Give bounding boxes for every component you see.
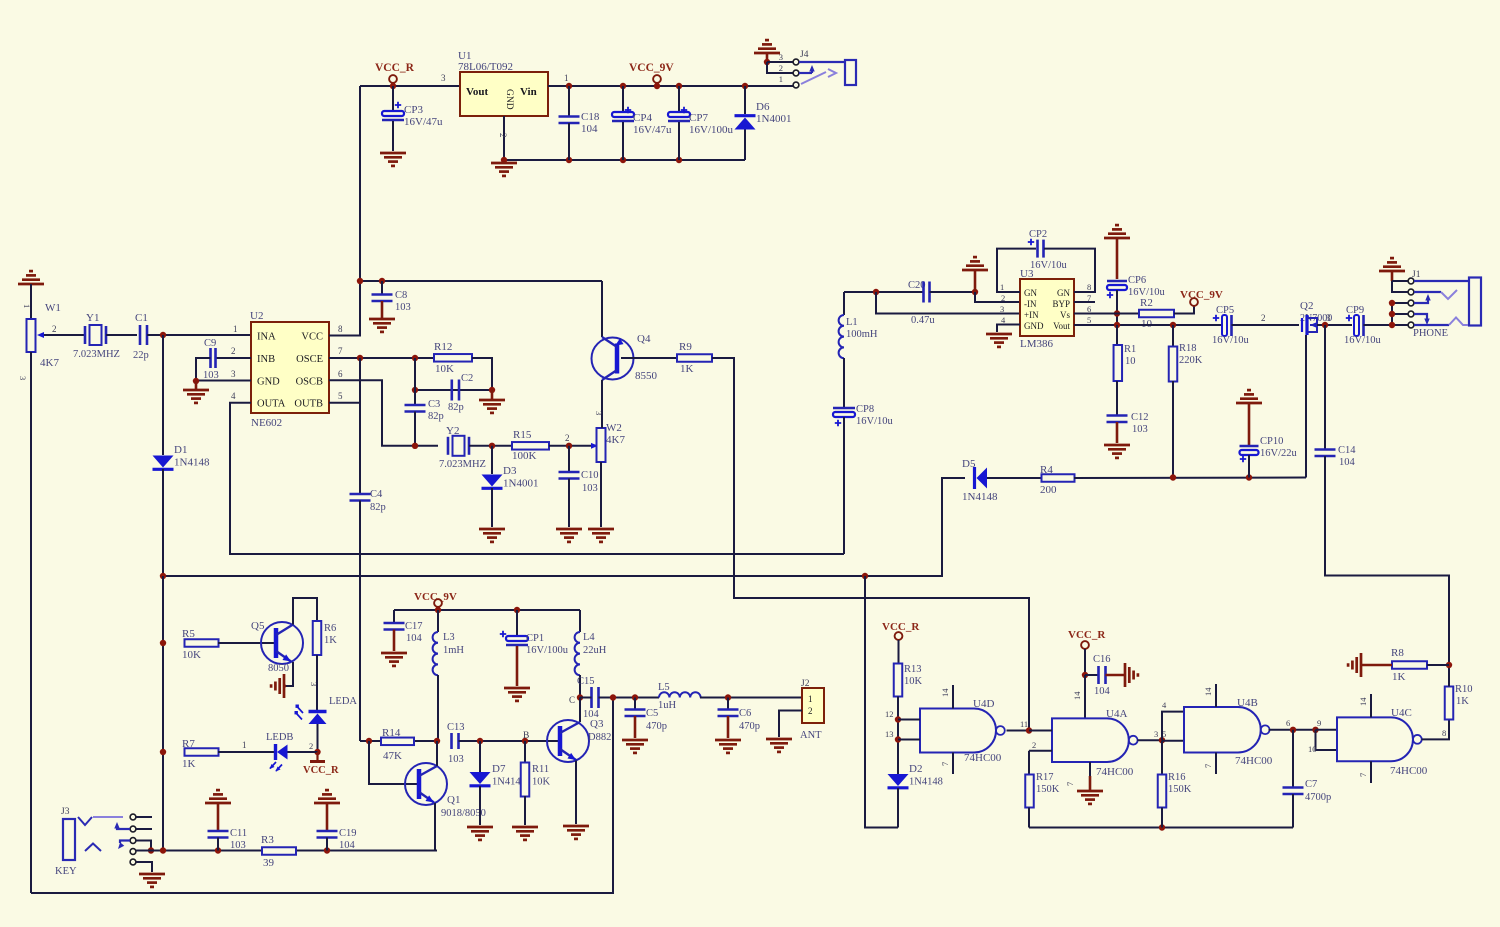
wire U3 pin4 GND loop xyxy=(997,325,1020,333)
wire U4A output to U4B xyxy=(1137,739,1162,741)
svg-text:2: 2 xyxy=(808,706,813,716)
svg-text:INA: INA xyxy=(257,332,276,343)
svg-text:6: 6 xyxy=(1286,718,1290,728)
capacitor C18 xyxy=(566,83,572,89)
svg-text:CP10: CP10 xyxy=(1260,436,1283,447)
transistor Q5 8050 NPN xyxy=(261,622,303,664)
svg-text:W2: W2 xyxy=(606,422,622,434)
capacitor C14 104 xyxy=(1322,322,1328,328)
svg-text:7: 7 xyxy=(940,762,950,766)
svg-text:U4A: U4A xyxy=(1106,708,1127,720)
svg-text:Q1: Q1 xyxy=(447,794,460,806)
wire Q5 collector loop to R6 xyxy=(293,598,317,625)
wire Q1 emitter down xyxy=(435,803,437,851)
transistor Q1 9018/8050 NPN xyxy=(405,763,447,805)
ground below D3 xyxy=(479,528,505,531)
svg-text:GND: GND xyxy=(1024,321,1044,331)
svg-text:10: 10 xyxy=(1308,744,1317,754)
wire U4C pin14 stub xyxy=(1370,694,1372,717)
wire J3 pin1 stub xyxy=(136,816,152,818)
svg-text:L1: L1 xyxy=(846,317,858,328)
svg-text:3: 3 xyxy=(594,411,604,415)
svg-text:16V/22u: 16V/22u xyxy=(1260,448,1298,459)
svg-text:R11: R11 xyxy=(532,764,549,775)
svg-text:C17: C17 xyxy=(405,621,423,632)
ground below C5 xyxy=(622,739,648,742)
svg-text:74HC00: 74HC00 xyxy=(964,752,1002,764)
svg-text:0.47u: 0.47u xyxy=(911,315,935,326)
wire L1 top to C20 xyxy=(844,291,923,293)
svg-text:22uH: 22uH xyxy=(583,645,607,656)
svg-text:R16: R16 xyxy=(1168,772,1186,783)
svg-text:KEY: KEY xyxy=(55,866,77,877)
ground below CP1 xyxy=(504,687,530,690)
svg-text:74HC00: 74HC00 xyxy=(1235,755,1273,767)
wire to U3 pin2 xyxy=(975,292,1020,302)
svg-text:103: 103 xyxy=(395,302,411,313)
svg-text:GND: GND xyxy=(504,89,514,110)
svg-text:1mH: 1mH xyxy=(443,645,464,656)
wire J2 pin2 to ground xyxy=(779,711,802,738)
svg-text:C10: C10 xyxy=(581,470,599,481)
svg-text:10K: 10K xyxy=(182,649,201,661)
svg-text:150K: 150K xyxy=(1036,784,1060,795)
svg-text:C8: C8 xyxy=(395,290,407,301)
wire U4B output xyxy=(1269,729,1316,731)
svg-text:CP7: CP7 xyxy=(689,112,708,124)
svg-text:103: 103 xyxy=(203,370,219,381)
svg-text:1: 1 xyxy=(564,73,569,83)
svg-text:103: 103 xyxy=(1132,424,1148,435)
svg-text:1N4148: 1N4148 xyxy=(962,491,998,503)
svg-text:4K7: 4K7 xyxy=(606,434,625,446)
diode D3 1N4001 xyxy=(491,446,493,474)
svg-text:U4D: U4D xyxy=(973,698,994,710)
capacitor C19 104 xyxy=(317,830,338,833)
capacitor CP2 16V/10u loop pins1-8 xyxy=(997,249,1036,292)
jack J4 symbol xyxy=(845,60,856,85)
svg-text:D3: D3 xyxy=(503,465,517,477)
svg-text:R1: R1 xyxy=(1124,344,1136,355)
svg-text:13: 13 xyxy=(885,729,894,739)
svg-text:ANT: ANT xyxy=(800,730,822,741)
NAND gate U4C 74HC00 xyxy=(1337,717,1413,761)
svg-text:C19: C19 xyxy=(339,828,357,839)
svg-text:C15: C15 xyxy=(577,676,595,687)
svg-text:VCC_R: VCC_R xyxy=(375,62,415,74)
svg-text:VCC_R: VCC_R xyxy=(1068,629,1106,641)
svg-text:8050: 8050 xyxy=(268,663,289,674)
NAND gate U4D 74HC00 xyxy=(920,709,996,753)
svg-text:1: 1 xyxy=(779,74,783,84)
wire U4C pin10 loop xyxy=(1316,730,1338,750)
svg-text:C4: C4 xyxy=(370,489,383,500)
svg-text:U2: U2 xyxy=(250,310,263,322)
svg-text:C1: C1 xyxy=(135,312,148,324)
svg-text:C13: C13 xyxy=(447,722,465,733)
svg-text:R15: R15 xyxy=(513,429,532,441)
wire W1 bottom down left edge xyxy=(30,352,32,893)
svg-text:1: 1 xyxy=(242,740,247,750)
svg-text:82p: 82p xyxy=(428,411,444,422)
ground below U1 pin2 xyxy=(491,162,517,165)
ground below J3 pin5 xyxy=(139,873,165,876)
diode D1 1N4148 xyxy=(162,335,164,455)
ground below U3 pin4 xyxy=(986,333,1012,336)
ground above CP10 xyxy=(1236,402,1262,405)
svg-text:2: 2 xyxy=(309,741,313,751)
svg-text:VCC: VCC xyxy=(301,332,323,343)
svg-text:100mH: 100mH xyxy=(846,329,878,340)
svg-text:LEDA: LEDA xyxy=(329,696,357,707)
svg-text:103: 103 xyxy=(230,840,246,851)
svg-text:10K: 10K xyxy=(532,777,551,788)
wire OSCB net to Y2 xyxy=(415,445,438,447)
ground below U4A pin7 xyxy=(1077,790,1103,793)
svg-text:R10: R10 xyxy=(1455,684,1473,695)
svg-text:3: 3 xyxy=(18,376,28,380)
svg-text:LEDB: LEDB xyxy=(266,732,293,743)
svg-text:C2: C2 xyxy=(461,373,473,384)
resistor R17 150K xyxy=(1028,751,1030,775)
svg-text:104: 104 xyxy=(1094,686,1111,697)
wire W1 wiper to Y1 xyxy=(40,334,86,336)
inductor L1 100mH xyxy=(843,292,845,315)
svg-text:D1: D1 xyxy=(174,444,187,456)
svg-text:7: 7 xyxy=(1358,773,1368,777)
svg-text:14: 14 xyxy=(940,688,950,697)
wire bottom ground rail xyxy=(504,159,745,161)
svg-text:5: 5 xyxy=(338,391,343,401)
svg-text:OSCE: OSCE xyxy=(296,354,323,365)
svg-text:2: 2 xyxy=(1032,740,1036,750)
svg-text:7: 7 xyxy=(1065,782,1075,786)
capacitor C4 82p xyxy=(359,358,361,494)
svg-text:4700p: 4700p xyxy=(1305,792,1331,803)
svg-text:L3: L3 xyxy=(443,632,455,643)
jack J3 internals xyxy=(78,817,92,825)
svg-text:R12: R12 xyxy=(434,341,452,353)
wire R4 to Q2 source xyxy=(1074,477,1306,480)
svg-text:PHONE: PHONE xyxy=(1413,328,1448,339)
wire Q3 emitter down xyxy=(575,761,577,825)
svg-text:8550: 8550 xyxy=(635,370,658,382)
svg-text:GND: GND xyxy=(257,377,280,388)
ground below C10 xyxy=(556,528,582,531)
svg-text:R8: R8 xyxy=(1391,647,1404,659)
svg-text:R3: R3 xyxy=(261,834,274,846)
svg-text:C3: C3 xyxy=(428,399,440,410)
svg-text:7: 7 xyxy=(1203,764,1213,768)
svg-text:D2: D2 xyxy=(909,763,922,775)
wire J3 pin4 main key net xyxy=(136,850,437,852)
svg-text:3: 3 xyxy=(1000,304,1004,314)
potentiometer W2 4K7 xyxy=(591,443,598,449)
wire VCC_9V rail xyxy=(394,609,580,611)
svg-text:6: 6 xyxy=(338,369,343,379)
capacitor CP3 xyxy=(392,86,394,111)
svg-text:74HC00: 74HC00 xyxy=(1390,765,1428,777)
svg-text:Vin: Vin xyxy=(520,86,537,98)
svg-text:10K: 10K xyxy=(904,676,923,687)
capacitor C8 103 xyxy=(379,278,385,284)
svg-text:VCC_9V: VCC_9V xyxy=(1180,289,1223,301)
wire Q1 collector up xyxy=(436,741,438,766)
wire Q2 drain output xyxy=(1317,324,1352,326)
svg-text:C9: C9 xyxy=(204,338,216,349)
wire D1 net to gates region xyxy=(865,576,898,828)
capacitor CP6 16V/10u xyxy=(1107,280,1127,283)
svg-text:CP8: CP8 xyxy=(856,404,874,415)
svg-text:9: 9 xyxy=(1317,718,1321,728)
svg-text:J4: J4 xyxy=(800,50,809,60)
svg-text:2: 2 xyxy=(1261,313,1266,323)
wire U2 pin8 VCC up xyxy=(329,281,360,336)
jack J1 symbol xyxy=(1469,278,1481,326)
svg-text:8: 8 xyxy=(1087,282,1091,292)
ground below Q3 xyxy=(563,825,589,828)
svg-text:8: 8 xyxy=(338,324,343,334)
svg-text:39: 39 xyxy=(263,857,275,869)
svg-text:16V/10u: 16V/10u xyxy=(1344,335,1382,346)
ground below C9/pin3 xyxy=(195,381,198,389)
potentiometer W1 4K7 xyxy=(30,284,32,319)
svg-text:7.023MHZ: 7.023MHZ xyxy=(439,459,486,470)
svg-text:C6: C6 xyxy=(739,708,751,719)
ground above C19 xyxy=(314,802,340,805)
ground below W2 xyxy=(588,528,614,531)
svg-text:103: 103 xyxy=(582,483,598,494)
svg-text:16V/10u: 16V/10u xyxy=(1212,335,1250,346)
resistor R1 10 xyxy=(1116,325,1118,345)
wire U4B pin7 stub xyxy=(1215,753,1217,775)
wire U2 pin7 OSCE xyxy=(329,357,434,359)
svg-text:Vs: Vs xyxy=(1060,310,1070,320)
svg-text:-IN: -IN xyxy=(1024,299,1037,309)
svg-text:R6: R6 xyxy=(324,623,336,634)
ground below C17 xyxy=(381,652,407,655)
wire U4C pin9 input xyxy=(1316,729,1338,731)
wire U4C pin7 stub xyxy=(1370,761,1372,783)
capacitor C17 104 xyxy=(393,610,395,623)
svg-text:NE602: NE602 xyxy=(251,417,282,429)
ground below C12 xyxy=(1104,444,1130,447)
svg-text:47K: 47K xyxy=(383,750,402,762)
wire R14 line xyxy=(360,740,437,742)
svg-text:2: 2 xyxy=(52,324,57,334)
wire U4D pin7 stub xyxy=(952,753,954,775)
diode D2 1N4148 xyxy=(888,774,909,786)
capacitor CP5 16V/10u xyxy=(1213,315,1219,321)
resistor R13 10K xyxy=(894,664,903,697)
svg-text:7.023MHZ: 7.023MHZ xyxy=(73,349,120,360)
wire U2 pin5 stub xyxy=(329,402,360,404)
svg-text:C5: C5 xyxy=(646,708,658,719)
svg-text:CP4: CP4 xyxy=(633,112,652,124)
resistor R11 10K xyxy=(524,741,526,763)
net label VCC_9V (LM386) xyxy=(1174,306,1194,314)
wire U4B pin14 stub xyxy=(1215,684,1217,707)
wire U4A pin2 input xyxy=(1029,750,1052,752)
svg-text:16V/47u: 16V/47u xyxy=(404,116,443,128)
svg-text:7: 7 xyxy=(338,346,343,356)
svg-text:OSCB: OSCB xyxy=(296,377,323,388)
svg-text:VCC_R: VCC_R xyxy=(303,765,339,776)
capacitor C6 470p xyxy=(727,698,729,710)
ground below C8 xyxy=(369,318,395,321)
svg-text:1uH: 1uH xyxy=(658,700,677,711)
wire U2 pin3 GND xyxy=(196,380,251,382)
svg-text:74HC00: 74HC00 xyxy=(1096,766,1134,778)
svg-text:82p: 82p xyxy=(370,502,386,513)
capacitor C11 103 xyxy=(208,830,229,833)
svg-text:GN: GN xyxy=(1024,288,1037,298)
wire J3 pin2 stub xyxy=(136,828,152,830)
resistor R6 1K xyxy=(313,621,322,655)
wire U4C output pin8 up to R10 xyxy=(1422,719,1450,739)
svg-text:D7: D7 xyxy=(492,763,506,775)
svg-text:103: 103 xyxy=(448,754,464,765)
svg-text:D6: D6 xyxy=(756,101,770,113)
ground below D7 xyxy=(467,826,493,829)
wire U1 pin2 GND down xyxy=(503,116,505,160)
ground above C11 xyxy=(205,802,231,805)
ground left of Q5 emitter xyxy=(284,685,286,688)
capacitor C12 103 xyxy=(1116,381,1118,415)
svg-text:C: C xyxy=(569,695,575,705)
svg-text:2: 2 xyxy=(231,346,236,356)
svg-text:22p: 22p xyxy=(133,350,149,361)
svg-text:1: 1 xyxy=(1000,282,1004,292)
svg-text:100K: 100K xyxy=(512,450,537,462)
svg-text:GN: GN xyxy=(1057,288,1070,298)
resistor R18 220K xyxy=(1172,325,1174,347)
svg-text:R5: R5 xyxy=(182,628,195,640)
wire Q2 source down xyxy=(1305,335,1307,478)
svg-text:B: B xyxy=(523,731,529,741)
capacitor C5 470p xyxy=(634,698,636,710)
ground below CP3 xyxy=(380,152,406,155)
wire feedback bottom rail xyxy=(1029,827,1293,829)
svg-text:LM386: LM386 xyxy=(1020,338,1054,350)
wire U4B pin4 loop xyxy=(1162,712,1184,741)
ground above J1 xyxy=(1379,270,1405,273)
wire x163 vertical D1 net down xyxy=(162,576,164,851)
svg-text:C14: C14 xyxy=(1338,445,1356,456)
wire long net y576 D1 to D5 xyxy=(163,478,965,576)
svg-text:1N4001: 1N4001 xyxy=(756,113,791,125)
ground below R11 xyxy=(512,826,538,829)
svg-text:C11: C11 xyxy=(230,828,247,839)
ground above W1 xyxy=(18,283,44,286)
wire junction to U3 pin3 xyxy=(876,292,1020,314)
svg-text:1K: 1K xyxy=(1456,696,1469,707)
wire vertical VCC_R rail down-left xyxy=(359,86,361,281)
svg-text:200: 200 xyxy=(1040,484,1057,496)
wire U3 pin7 stub xyxy=(1074,301,1095,303)
svg-text:CP1: CP1 xyxy=(526,633,544,644)
svg-text:3: 3 xyxy=(1154,729,1158,739)
svg-text:12: 12 xyxy=(885,709,894,719)
ground above CP6 xyxy=(1104,237,1130,240)
wire U4B pin5 input xyxy=(1162,740,1184,742)
svg-text:R9: R9 xyxy=(679,341,692,353)
svg-text:Q5: Q5 xyxy=(251,620,265,632)
svg-text:U4C: U4C xyxy=(1391,707,1412,719)
NAND gate U4B 74HC00 xyxy=(1184,707,1261,753)
capacitor CP9 16V/10u xyxy=(1346,315,1352,321)
svg-text:1K: 1K xyxy=(182,758,196,770)
svg-text:16V/100u: 16V/100u xyxy=(526,645,569,656)
ground above C20/U3 pin2 xyxy=(962,269,988,272)
ground above J4 pin3 xyxy=(754,52,780,55)
svg-text:150K: 150K xyxy=(1168,784,1192,795)
wire U4D output to U4A pin1 xyxy=(1007,730,1030,732)
svg-text:220K: 220K xyxy=(1179,355,1203,366)
svg-text:C12: C12 xyxy=(1131,412,1149,423)
svg-text:Y1: Y1 xyxy=(86,312,99,324)
svg-text:104: 104 xyxy=(406,633,423,644)
svg-text:2: 2 xyxy=(779,63,783,73)
svg-text:CP2: CP2 xyxy=(1029,229,1047,240)
svg-text:OUTA: OUTA xyxy=(257,399,286,410)
svg-text:1: 1 xyxy=(233,324,238,334)
capacitor CP7 xyxy=(676,83,682,89)
svg-text:1K: 1K xyxy=(680,363,694,375)
svg-text:D882: D882 xyxy=(588,732,611,743)
capacitor CP4 xyxy=(620,83,626,89)
wire J3 pin5 to ground xyxy=(136,862,152,872)
wire U2 pin6 OSCB loop xyxy=(329,380,415,446)
wire U3 pin5 output row xyxy=(1074,324,1222,326)
svg-text:BYP: BYP xyxy=(1052,299,1070,309)
inductor L3 1mH xyxy=(437,610,439,632)
ground left of R8 xyxy=(1362,664,1392,667)
diode D7 1N4148 xyxy=(479,741,481,772)
svg-text:CP6: CP6 xyxy=(1128,275,1146,286)
svg-text:4K7: 4K7 xyxy=(40,357,59,369)
capacitor C10 103 xyxy=(568,446,570,472)
svg-text:14: 14 xyxy=(1203,687,1213,696)
svg-text:CP3: CP3 xyxy=(404,104,423,116)
wire U2 pin4 OUTA loop xyxy=(230,403,844,554)
wire U4D pin14 stub xyxy=(952,685,954,709)
svg-text:82p: 82p xyxy=(448,402,464,413)
svg-text:2: 2 xyxy=(565,433,570,443)
diode D6 1N4001 xyxy=(742,83,748,89)
svg-text:470p: 470p xyxy=(739,721,760,732)
svg-text:16V/47u: 16V/47u xyxy=(633,124,672,136)
svg-text:3: 3 xyxy=(779,52,783,62)
wire top rail VCC_R to U1 Vout xyxy=(360,85,460,87)
ground below J2 pin2 xyxy=(766,738,792,741)
svg-text:104: 104 xyxy=(581,123,598,135)
resistor R16 150K xyxy=(1161,741,1163,775)
svg-text:C16: C16 xyxy=(1093,654,1111,665)
transistor Q4 8550 PNP xyxy=(601,281,603,337)
capacitor C9 103 on U2 pin2 xyxy=(216,357,251,359)
svg-text:3: 3 xyxy=(441,73,446,83)
svg-text:1: 1 xyxy=(808,694,813,704)
svg-text:1N4001: 1N4001 xyxy=(503,478,538,490)
capacitor C7 4700p xyxy=(1292,730,1294,788)
svg-text:Q4: Q4 xyxy=(637,333,651,345)
svg-text:R13: R13 xyxy=(904,664,922,675)
capacitor CP1 16V/100u xyxy=(516,610,518,636)
capacitor CP8 16V/10u xyxy=(843,358,845,408)
wire top rail U1 Vin to jack J4 xyxy=(548,85,793,87)
svg-text:3: 3 xyxy=(231,369,236,379)
